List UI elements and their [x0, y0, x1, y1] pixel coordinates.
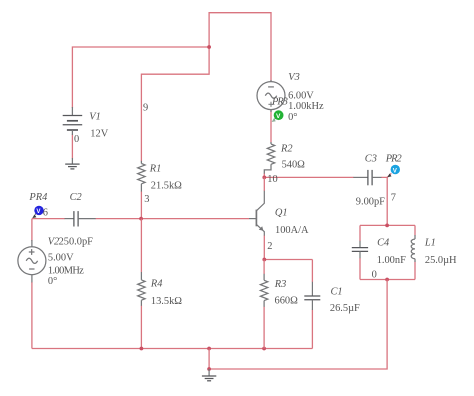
wire collector red from node 10: [263, 177, 265, 191]
svg-text:1.00nF: 1.00nF: [377, 255, 406, 266]
svg-text:0°: 0°: [288, 112, 297, 123]
wire rail corner up to C1 bottom: [311, 310, 313, 349]
svg-text:250.0pF: 250.0pF: [59, 237, 94, 248]
svg-text:12V: 12V: [90, 128, 108, 139]
wire V1 bottom to ground: [71, 135, 73, 159]
capacitor C2: [65, 211, 96, 226]
svg-text:R2: R2: [280, 143, 293, 154]
Q1 base lead: [249, 218, 256, 220]
resistor R4: [138, 272, 145, 306]
svg-text:21.5kΩ: 21.5kΩ: [151, 180, 182, 191]
svg-text:7: 7: [391, 192, 396, 203]
svg-text:C1: C1: [331, 286, 343, 297]
junction dot ground branch: [207, 347, 211, 351]
wire node 2 down to R3 top: [263, 260, 265, 275]
wire bottom ground rail: [32, 348, 313, 350]
resistor R2: [264, 142, 274, 174]
svg-text:R4: R4: [150, 279, 163, 290]
wire PR4 corner down to V2 top: [31, 219, 33, 241]
svg-text:9: 9: [143, 103, 148, 114]
svg-text:R3: R3: [274, 279, 287, 290]
wire tank right upper to L1: [414, 225, 416, 235]
wire R4 bottom to ground rail: [140, 306, 142, 349]
junction dot tank top: [385, 224, 389, 228]
svg-text:V2: V2: [48, 237, 60, 248]
svg-text:0°: 0°: [48, 276, 57, 287]
wire emitter red to node 2: [263, 235, 265, 259]
ground bottom center: [202, 369, 216, 381]
Q1 emitter lead with arrow: [256, 224, 264, 235]
svg-text:0: 0: [372, 270, 377, 281]
junction dot node 2: [262, 258, 266, 262]
wire PR2 pigtail: [387, 173, 391, 177]
capacitor C1: [304, 282, 320, 310]
junction dot VCC: [207, 45, 211, 49]
wire C3 right to corner down to tank top: [381, 177, 387, 225]
svg-text:540Ω: 540Ω: [282, 159, 306, 170]
transistor Q1: [249, 191, 264, 236]
wire tank left upper to C4: [359, 225, 361, 241]
svg-text:26.5µF: 26.5µF: [330, 303, 360, 314]
svg-text:PR3: PR3: [271, 96, 288, 107]
wire tank left lower from C4: [359, 258, 361, 280]
svg-text:5.00V: 5.00V: [48, 253, 74, 264]
wire junction to top rail to V3: [209, 13, 271, 82]
junction dot node 3: [139, 217, 143, 221]
wire node 2 right to C1 branch: [264, 259, 312, 261]
junction dot node 10: [262, 176, 266, 180]
wire V3 bottom to R2 top: [270, 110, 272, 143]
wire R3 bottom to rail: [263, 307, 265, 349]
probe PR2 arrow: [387, 174, 391, 178]
svg-text:10: 10: [267, 174, 277, 185]
svg-text:C4: C4: [377, 238, 389, 249]
Q1 collector lead, pin to node 10: [256, 191, 264, 211]
junction dot tank bottom: [385, 278, 389, 282]
capacitor C3: [353, 170, 381, 185]
resistor R3: [260, 274, 267, 307]
svg-text:0: 0: [74, 134, 79, 145]
svg-text:PR2: PR2: [385, 153, 402, 164]
svg-text:Q1: Q1: [275, 208, 288, 219]
wire node 3 down to R4 top: [140, 219, 142, 272]
svg-text:V3: V3: [288, 72, 300, 83]
svg-text:C2: C2: [70, 192, 82, 203]
probe PR2 badge: [391, 165, 400, 174]
wire node 3 horizontal C2 to Q1 base: [96, 218, 250, 220]
inductor L1: [411, 235, 415, 262]
AC source V2: [18, 240, 46, 282]
resistor R1: [138, 161, 145, 192]
wire tank top side: [360, 224, 415, 226]
svg-text:25.0µH: 25.0µH: [425, 255, 457, 266]
svg-text:1.00kHz: 1.00kHz: [288, 101, 324, 112]
wire C1 top to node 2 corner: [311, 260, 313, 283]
svg-text:R1: R1: [149, 164, 162, 175]
Q1 emitter arrowhead: [259, 226, 264, 230]
wire V1 plus up to junction: [72, 47, 209, 108]
wire tank bottom down then left to ground node: [209, 280, 387, 370]
wire tank right lower from L1: [414, 262, 416, 280]
svg-text:6: 6: [43, 207, 48, 218]
svg-text:PR4: PR4: [28, 192, 47, 203]
ground under V1: [65, 158, 79, 169]
svg-text:660Ω: 660Ω: [275, 295, 299, 306]
svg-text:100A/A: 100A/A: [275, 225, 309, 236]
svg-text:2: 2: [267, 241, 272, 252]
probe PR3 arrow: [274, 117, 276, 119]
capacitor C4: [352, 241, 368, 258]
wire junction down-left to R1 top, node 9: [141, 47, 209, 161]
wire node 10 to C3 left: [264, 176, 353, 178]
svg-text:C3: C3: [365, 153, 377, 164]
wire R2 jog bottom to node 10: [263, 173, 265, 177]
svg-text:9.00pF: 9.00pF: [356, 197, 385, 208]
wire R1 bottom to node 3: [140, 191, 142, 218]
junction dot lower ground net: [207, 367, 211, 371]
wire PR4 corner to C2 left: [32, 218, 65, 220]
svg-text:L1: L1: [424, 238, 436, 249]
probe PR4 badge: [34, 206, 43, 215]
AC source V3: [257, 80, 285, 112]
wire V2 bottom to ground rail: [31, 282, 33, 349]
svg-text:V: V: [276, 113, 281, 120]
junction dot R3 bottom: [262, 347, 266, 351]
svg-text:13.5kΩ: 13.5kΩ: [151, 296, 182, 307]
junction dot R4 bottom: [140, 347, 144, 351]
probe PR3 badge: [274, 110, 284, 120]
battery V1: [63, 107, 82, 135]
svg-text:6.00V: 6.00V: [288, 90, 314, 101]
probe PR4 arrow: [35, 212, 37, 214]
Q1 base bar: [255, 210, 257, 227]
svg-text:3: 3: [144, 194, 149, 205]
wire ground rail down to lower net: [208, 349, 210, 370]
wire tank bottom side: [360, 279, 415, 281]
svg-text:V1: V1: [89, 111, 101, 122]
